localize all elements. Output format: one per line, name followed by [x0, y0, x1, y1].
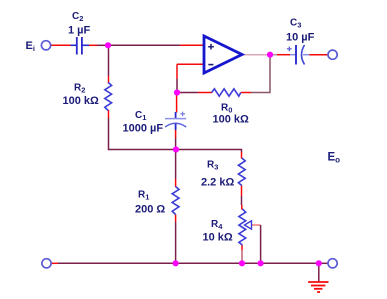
wire: C1 bottom to node B: [175, 130, 177, 139]
op-amp U1: [204, 36, 242, 73]
wire: node B down to R1: [175, 150, 177, 180]
node: bottom rail wiper junction dot: [258, 260, 264, 266]
node: bottom rail R1 junction dot: [173, 260, 179, 266]
node: output junction dot: [267, 52, 273, 58]
wire: bottom rail: [51, 262, 58, 264]
capacitor C2: [71, 37, 89, 55]
potentiometer R4 wiper arrow: [245, 221, 252, 229]
op-amp + pin mark: [208, 44, 214, 50]
svg-text:2.2 kΩ: 2.2 kΩ: [201, 177, 234, 189]
wire: R0 right up to output node: [241, 92, 251, 94]
ground: [308, 282, 328, 292]
wire: feedback node down to C1: [176, 93, 178, 113]
potentiometer R4: [239, 209, 246, 245]
wire: R4 bottom to bottom rail: [241, 245, 243, 250]
bottom-left terminal: [42, 259, 51, 268]
svg-text:10 µF: 10 µF: [286, 32, 315, 44]
svg-text:10 kΩ: 10 kΩ: [203, 232, 233, 244]
resistor R0: [212, 89, 241, 96]
node: feedback junction dot: [174, 89, 180, 95]
capacitor C3: [287, 45, 310, 65]
wire: node A down to R2: [108, 45, 110, 76]
wire: R1 bottom to bottom rail: [175, 215, 177, 223]
node: bottom rail R4 junction dot: [239, 260, 245, 266]
wire: R2 bottom to corner to node B: [108, 110, 110, 118]
svg-text:200 Ω: 200 Ω: [135, 204, 165, 216]
wire: ground drop: [318, 263, 320, 281]
wire: C3 to output terminal: [309, 54, 328, 56]
wire: R3 bottom to R4 top: [241, 186, 243, 197]
wire: ground node to bottom-right terminal: [319, 262, 328, 264]
svg-text:100 kΩ: 100 kΩ: [213, 114, 250, 126]
wire: R4 wiper to bottom rail: [251, 224, 261, 226]
output terminal top right: [328, 50, 337, 59]
wire: feedback node to R0 left: [177, 92, 198, 94]
wire: C2 to node A: [89, 44, 97, 46]
wire: op-amp output to output node: [243, 54, 270, 56]
capacitor C1: [165, 112, 186, 130]
node B junction dot: [173, 146, 179, 152]
wire: node A to op-amp + input: [108, 44, 180, 46]
svg-text:100 kΩ: 100 kΩ: [63, 95, 100, 107]
bottom-right terminal: [328, 259, 337, 268]
resistor R1: [172, 187, 179, 215]
node: ground junction dot: [316, 260, 322, 266]
wire: input terminal to C2: [51, 44, 72, 46]
resistor R3: [238, 158, 245, 186]
op-amp - pin mark: [208, 64, 213, 66]
wire: output node to C3: [270, 54, 277, 56]
wire: op-amp - input to feedback column: [177, 63, 203, 65]
wire: node B to R3 column: [176, 150, 242, 153]
svg-text:1000 µF: 1000 µF: [123, 123, 164, 135]
node A junction dot: [105, 42, 111, 48]
svg-text:1 µF: 1 µF: [68, 25, 91, 37]
input terminal Ei: [41, 41, 50, 50]
resistor R2: [105, 83, 112, 111]
